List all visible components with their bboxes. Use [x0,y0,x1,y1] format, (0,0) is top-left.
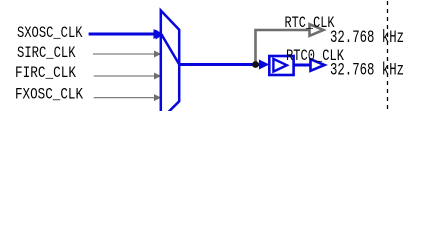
svg-text:RTC_CLK: RTC_CLK [285,14,335,32]
svg-text:FXOSC_CLK: FXOSC_CLK [15,85,83,103]
svg-text:32.768 kHz: 32.768 kHz [330,61,404,81]
svg-text:32.768 kHz: 32.768 kHz [330,28,404,48]
svg-text:SXOSC_CLK: SXOSC_CLK [17,24,83,42]
svg-text:SIRC_CLK: SIRC_CLK [17,44,76,62]
svg-text:FIRC_CLK: FIRC_CLK [15,64,76,82]
